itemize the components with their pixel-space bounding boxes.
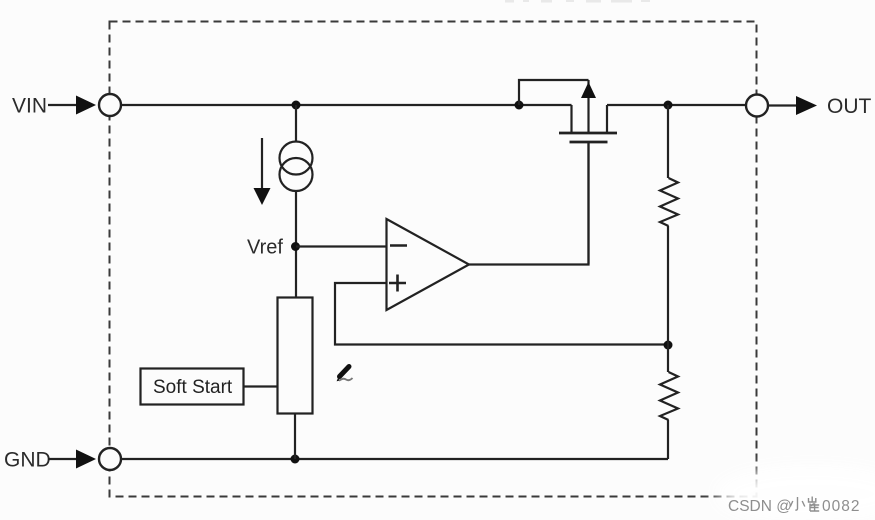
xiao bbox=[795, 497, 797, 510]
svg-text:CSDN @: CSDN @ bbox=[728, 498, 792, 515]
Soft Start block bbox=[141, 369, 244, 405]
bulk loop wire bbox=[519, 80, 589, 105]
soft-start resistor block (tall rectangle) bbox=[278, 298, 313, 414]
svg-text:VIN: VIN bbox=[12, 95, 47, 118]
wire: transistor drain to OUT terminal bbox=[607, 104, 746, 106]
wire: midpoint to R2 bbox=[667, 345, 669, 372]
wire: Vref to op-amp inverting input bbox=[296, 245, 386, 247]
node: VIN rail / current source junction bbox=[292, 101, 301, 110]
current direction arrow bbox=[254, 138, 271, 205]
VIN input arrow bbox=[48, 96, 96, 115]
watermark CSDN @xiaocui0082 bbox=[728, 497, 860, 516]
pass transistor Q1 bbox=[519, 80, 617, 264]
wire: op-amp output to gate bbox=[469, 143, 589, 265]
wire: current source to Vref node bbox=[295, 191, 297, 297]
wire: R1 to midpoint node bbox=[667, 226, 669, 345]
wire: feedback to non-inverting input bbox=[335, 283, 668, 345]
dashed IC boundary box bbox=[110, 22, 757, 497]
wire: R2 to ground rail bbox=[667, 420, 669, 459]
cui bbox=[809, 497, 816, 503]
svg-text:Soft Start: Soft Start bbox=[153, 377, 233, 398]
node Vref bbox=[291, 242, 300, 251]
gate lead bbox=[587, 143, 589, 264]
drain lead bbox=[606, 105, 608, 132]
pencil cursor icon bbox=[337, 367, 353, 382]
wire: ground rail bbox=[121, 458, 668, 460]
svg-text:GND: GND bbox=[4, 449, 51, 472]
channel bar bbox=[559, 132, 617, 135]
GND terminal circle bbox=[99, 448, 121, 470]
op-amp plus sign bbox=[389, 275, 406, 292]
svg-text:Vref: Vref bbox=[247, 237, 283, 259]
wire: VIN rail (terminal to transistor source) bbox=[121, 104, 572, 106]
bulk arrow (pointing up) bbox=[587, 80, 589, 132]
gate bar bbox=[570, 141, 608, 144]
GND input arrow bbox=[48, 450, 96, 469]
svg-text:OUT: OUT bbox=[827, 95, 872, 118]
op-amp minus sign bbox=[390, 244, 407, 247]
wire: VIN rail down to current source bbox=[295, 105, 297, 142]
node: feedback divider midpoint bbox=[664, 341, 673, 350]
wire: resistor block to ground rail bbox=[294, 414, 296, 459]
node: output rail / feedback divider junction bbox=[664, 101, 673, 110]
node: ground rail / soft-start resistor junction bbox=[291, 455, 300, 464]
wire: output node down to R1 bbox=[667, 105, 669, 178]
resistor R1 (upper divider) bbox=[660, 178, 678, 226]
svg-text:0082: 0082 bbox=[822, 498, 860, 515]
resistor R2 (lower divider) bbox=[660, 372, 678, 420]
OUT output arrow bbox=[768, 96, 817, 115]
source lead bbox=[570, 105, 572, 132]
op-amp U1 bbox=[387, 219, 470, 310]
current source I1 (two overlapping circles) bbox=[280, 142, 313, 192]
wire: Soft Start to resistor block bbox=[244, 385, 277, 387]
OUT terminal circle bbox=[746, 95, 768, 117]
VIN terminal circle bbox=[99, 94, 121, 116]
node: VIN rail / transistor bulk junction bbox=[515, 101, 524, 110]
